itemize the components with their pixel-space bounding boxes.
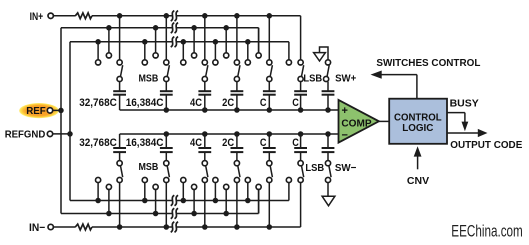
switch SW+ throw	[325, 60, 330, 65]
ground flag (SW-)	[327, 183, 329, 197]
capacitor 16,384C (bottom)	[165, 152, 167, 161]
switch S3+ throws	[182, 42, 184, 60]
capacitor dummy (SW+)	[327, 82, 329, 92]
ground flag (SW+)	[320, 47, 329, 60]
switch SW+ pole	[324, 76, 329, 81]
svg-text:−: −	[342, 129, 348, 141]
switch S5- pole	[267, 161, 272, 166]
svg-text:MSB: MSB	[139, 161, 159, 173]
switch SW- pole	[325, 161, 330, 166]
capacitor 4C (bottom)	[204, 152, 206, 161]
wire rail1 drop to LSB switch	[300, 16, 302, 60]
svg-text:C: C	[260, 137, 267, 149]
switch S2- throws	[144, 183, 146, 201]
svg-text:REFGND: REFGND	[5, 130, 46, 141]
switch S1- throws	[97, 183, 99, 201]
svg-text:C: C	[292, 137, 299, 149]
switch S4- pole	[234, 161, 239, 166]
svg-text:CNV: CNV	[407, 175, 429, 187]
capacitor dummy (SW-)	[327, 152, 329, 161]
arrow OUTPUT CODE	[447, 132, 479, 134]
wire break squiggle	[171, 195, 175, 205]
capacitor 4C (top)	[204, 82, 206, 92]
wire CDAC+ common bus	[120, 109, 339, 111]
wire REF vertical bus	[60, 28, 62, 214]
svg-text:LSB: LSB	[303, 73, 322, 85]
arrow BUSY	[447, 112, 465, 114]
capacitor C (top)	[268, 82, 270, 92]
svg-text:IN−: IN−	[29, 222, 45, 234]
switch S2+ throws	[144, 42, 146, 60]
svg-text:C: C	[260, 97, 267, 109]
wire break squiggle	[171, 11, 175, 21]
svg-text:SW−: SW−	[335, 162, 357, 174]
wire IN+ to resistor	[54, 15, 76, 17]
node REF highlight	[19, 103, 59, 118]
svg-text:IN+: IN+	[30, 11, 44, 23]
wire break squiggle	[171, 23, 175, 33]
wire rail REFGND bottom	[70, 200, 289, 202]
wire REFGND vertical bus	[69, 42, 71, 201]
wire rail REF bottom	[61, 213, 259, 215]
switch LSB- throws	[286, 177, 291, 182]
wire rail1 rise to LSB switch bottom	[300, 183, 302, 227]
wire rail IN- bottom	[92, 226, 301, 228]
svg-text:OUTPUT CODE: OUTPUT CODE	[450, 139, 522, 151]
capacitor 2C (bottom)	[236, 152, 238, 161]
svg-text:LOGIC: LOGIC	[402, 122, 434, 134]
svg-text:SW+: SW+	[335, 73, 356, 85]
wire IN- to resistor	[54, 226, 76, 228]
switch S3- throws	[182, 183, 184, 201]
wire rail REFGND top	[70, 41, 289, 43]
switch S1+ throws	[97, 42, 99, 60]
switch S5- throws	[247, 183, 249, 201]
switch SW- throw	[325, 177, 330, 182]
capacitor C LSB (top)	[300, 82, 302, 92]
svg-text:C: C	[292, 97, 299, 109]
svg-text:SWITCHES CONTROL: SWITCHES CONTROL	[376, 57, 481, 69]
switch S4+ pole	[234, 76, 239, 81]
switch S5+ pole	[267, 76, 272, 81]
resistor R2 (IN- series)	[75, 224, 92, 230]
switch S4- throws	[214, 183, 216, 201]
svg-text:BUSY: BUSY	[450, 98, 479, 110]
svg-text:LSB: LSB	[305, 162, 324, 174]
control logic U1	[389, 99, 447, 144]
svg-text:2C: 2C	[222, 97, 234, 109]
capacitor 2C (top)	[236, 82, 238, 92]
svg-text:COMP: COMP	[341, 118, 372, 129]
wire break squiggle	[171, 222, 175, 232]
svg-text:32,768C: 32,768C	[79, 137, 117, 149]
switch S2+ pole	[164, 76, 169, 81]
wire rail IN+ top	[92, 15, 301, 17]
svg-text:EEChina.com: EEChina.com	[451, 222, 523, 241]
wire break squiggle	[171, 37, 175, 47]
arrow SWITCHES CONTROL	[381, 74, 417, 76]
switch S1+ pole	[117, 76, 122, 81]
capacitor 32,768C (top)	[119, 82, 121, 92]
svg-text:16,384C: 16,384C	[126, 97, 164, 109]
comparator COMP	[339, 100, 379, 143]
switch LSB+ throws	[286, 60, 291, 65]
switch LSB- pole	[298, 161, 303, 166]
wire break squiggle	[171, 208, 175, 218]
svg-text:16,384C: 16,384C	[126, 137, 164, 149]
switch S3+ pole	[202, 76, 207, 81]
svg-text:+: +	[342, 105, 348, 117]
switch S1- pole	[117, 161, 122, 166]
svg-text:4C: 4C	[190, 137, 202, 149]
wire rail REF top	[61, 27, 259, 29]
capacitor 16,384C (top)	[165, 82, 167, 92]
svg-text:REF: REF	[26, 106, 46, 117]
wire REF tap	[53, 109, 61, 111]
capacitor 32,768C (bottom)	[119, 152, 121, 161]
svg-text:4C: 4C	[190, 97, 202, 109]
switch LSB+ pole	[298, 76, 303, 81]
switch S3- pole	[202, 161, 207, 166]
arrow CNV	[417, 156, 419, 170]
wire COMP output	[379, 120, 389, 122]
svg-text:MSB: MSB	[139, 72, 159, 84]
capacitor C (bottom)	[268, 152, 270, 161]
switch S2- pole	[164, 161, 169, 166]
resistor R1 (IN+ series)	[75, 13, 92, 19]
svg-text:2C: 2C	[222, 137, 234, 149]
wire CDAC- common bus	[120, 133, 339, 135]
wire REFGND tap	[53, 133, 70, 135]
capacitor C LSB (bottom)	[300, 152, 302, 161]
svg-text:32,768C: 32,768C	[79, 97, 117, 109]
switch S5+ throws	[247, 42, 249, 60]
switch S4+ throws	[214, 42, 216, 60]
